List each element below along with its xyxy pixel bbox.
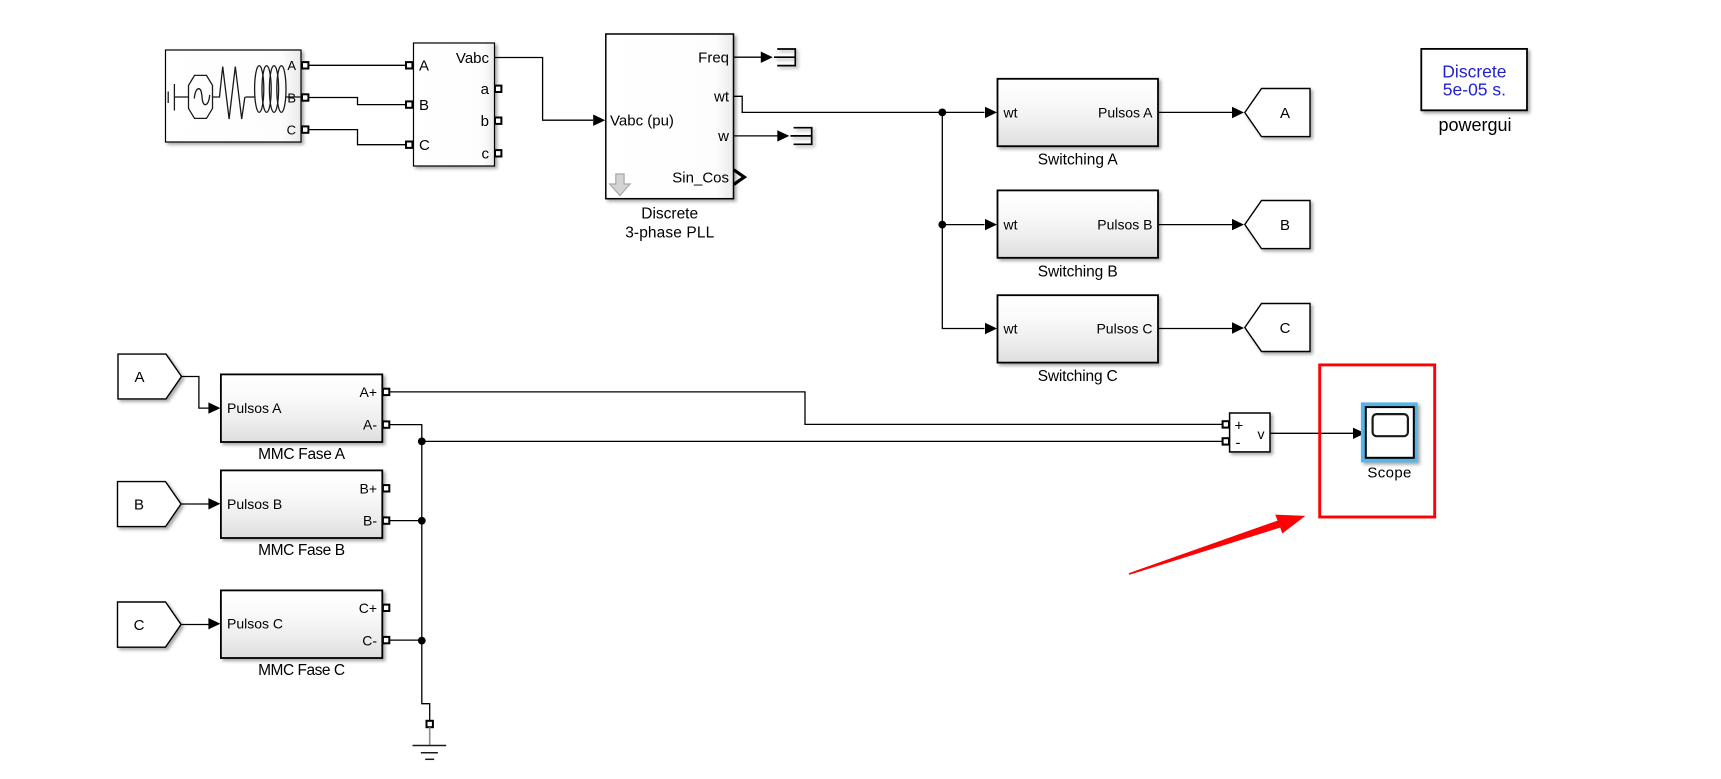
svg-text:wt: wt [713, 89, 730, 106]
Goto tag A [1245, 89, 1310, 137]
MMC C- port square [383, 637, 389, 643]
svg-text:A: A [1280, 105, 1290, 122]
arrowhead into PLL [593, 115, 605, 126]
PLL gray down-arrow icon [610, 174, 630, 196]
wire wt from PLL to switching blocks [734, 96, 985, 328]
svg-text:MMC Fase B: MMC Fase B [258, 542, 345, 559]
svg-text:C: C [134, 617, 145, 634]
junction dot A- bus [418, 438, 426, 446]
wire negative bus vertical [422, 441, 430, 720]
svg-text:Pulsos C: Pulsos C [1096, 321, 1152, 337]
MMC C+ port square [383, 605, 389, 611]
wire MMC B- to bus [389, 520, 422, 522]
terminator block w [790, 128, 811, 145]
MMC Fase C block [221, 590, 382, 658]
red annotation rectangle [1320, 365, 1435, 517]
svg-text:Scope: Scope [1367, 465, 1411, 482]
svg-text:-: - [1236, 435, 1241, 452]
three-phase measurement block Vabc [414, 43, 495, 166]
junction dot wt branch A [938, 109, 946, 117]
measurement block port square A [406, 62, 412, 68]
svg-text:A: A [419, 58, 429, 75]
svg-text:wt: wt [1003, 217, 1018, 233]
svg-text:B: B [1280, 217, 1290, 234]
From tag B [118, 482, 182, 527]
source inductor [246, 66, 302, 113]
svg-text:+: + [1235, 418, 1244, 435]
svg-text:Vabc: Vabc [456, 50, 490, 67]
arrowhead into Switching A [985, 107, 997, 118]
wire From A to MMC Fase A [182, 377, 210, 409]
voltage measurement block [1230, 413, 1270, 452]
wire Switching C to Goto C [1158, 328, 1232, 330]
source resistor [213, 67, 245, 119]
arrowhead Goto C [1232, 322, 1244, 333]
wire source B to measurement B [309, 98, 407, 105]
wire negative bus to voltage measurement minus [422, 440, 1223, 442]
wire source A to measurement A [309, 64, 407, 66]
arrowhead Goto A [1232, 107, 1244, 118]
svg-text:A: A [287, 58, 296, 73]
Discrete 3-phase PLL block [606, 34, 734, 199]
MMC B- port square [383, 517, 389, 523]
svg-text:Sin_Cos: Sin_Cos [672, 169, 729, 186]
arrowhead Freq [761, 52, 773, 63]
arrowhead w [777, 130, 789, 141]
svg-text:B: B [419, 97, 429, 114]
svg-text:wt: wt [1003, 104, 1018, 120]
junction dot C- bus [418, 637, 426, 645]
wire source C to measurement C [309, 130, 407, 145]
wire MMC A+ to voltage measurement plus [389, 392, 1222, 425]
From tag A [118, 354, 182, 399]
wire Vabc to PLL input [495, 58, 594, 121]
svg-text:powergui: powergui [1438, 115, 1511, 135]
MMC A+ port square [383, 389, 389, 395]
wire Switching A to Goto A [1158, 111, 1232, 113]
svg-text:C+: C+ [359, 600, 377, 616]
svg-text:Vabc (pu): Vabc (pu) [610, 113, 674, 130]
svg-text:Switching B: Switching B [1038, 263, 1118, 280]
wire w to terminator [734, 135, 778, 137]
red annotation arrow [1129, 515, 1306, 575]
arrowhead into Switching C [985, 323, 997, 334]
Switching C block [998, 295, 1159, 362]
svg-text:MMC Fase A: MMC Fase A [258, 446, 346, 463]
MMC Fase B block [221, 470, 382, 538]
measurement output square a [495, 86, 501, 92]
junction dot B- bus [418, 517, 426, 525]
wire MMC C- to bus [389, 639, 422, 641]
svg-text:Pulsos B: Pulsos B [1097, 217, 1152, 233]
svg-text:A-: A- [363, 417, 377, 433]
svg-text:w: w [717, 128, 729, 145]
svg-text:Freq: Freq [698, 49, 729, 66]
wire Freq to terminator [734, 56, 762, 58]
measurement output square c [495, 150, 501, 156]
svg-text:5e-05 s.: 5e-05 s. [1443, 80, 1506, 100]
Sin_Cos unconnected output chevron [734, 170, 745, 185]
ground port square [427, 721, 433, 727]
svg-text:b: b [481, 113, 489, 130]
svg-text:a: a [481, 81, 490, 98]
svg-text:Discrete: Discrete [641, 205, 698, 222]
svg-text:C: C [419, 137, 430, 154]
measurement block port square C [406, 142, 412, 148]
svg-text:MMC Fase C: MMC Fase C [258, 662, 345, 679]
svg-text:Switching A: Switching A [1038, 151, 1119, 168]
svg-text:A+: A+ [359, 384, 377, 400]
svg-text:Pulsos C: Pulsos C [227, 616, 283, 632]
Switching B block [998, 190, 1159, 257]
arrowhead into Switching B [985, 219, 997, 230]
svg-text:Pulsos A: Pulsos A [1098, 104, 1153, 120]
measurement block port square B [406, 101, 412, 107]
arrowhead into Scope [1353, 428, 1365, 439]
svg-text:c: c [482, 146, 490, 163]
svg-text:A: A [134, 369, 144, 386]
arrowhead into MMC Fase B [208, 498, 220, 509]
svg-text:B+: B+ [359, 480, 377, 496]
svg-text:Pulsos A: Pulsos A [227, 400, 282, 416]
svg-text:C: C [1280, 320, 1291, 337]
MMC B+ port square [383, 485, 389, 491]
MMC Fase A block [221, 374, 382, 442]
svg-text:Pulsos B: Pulsos B [227, 496, 282, 512]
wire From B to MMC Fase B [181, 503, 209, 505]
arrowhead Goto B [1232, 219, 1244, 230]
Goto tag B [1245, 201, 1310, 249]
svg-text:C-: C- [362, 633, 377, 649]
terminator block Freq [774, 49, 795, 66]
junction dot wt branch B [938, 221, 946, 229]
wire MMC A- to negative bus [389, 425, 422, 442]
svg-text:3-phase PLL: 3-phase PLL [625, 224, 714, 241]
source battery bars [168, 84, 188, 111]
svg-text:wt: wt [1003, 321, 1018, 337]
arrowhead into MMC Fase C [208, 618, 220, 629]
source port square B [302, 94, 308, 100]
source port square A [302, 62, 308, 68]
svg-text:v: v [1258, 426, 1265, 442]
svg-text:B-: B- [363, 513, 377, 529]
svg-text:C: C [287, 123, 296, 138]
voltage measurement minus port square [1223, 438, 1229, 444]
ground symbol [413, 727, 447, 759]
svg-text:Discrete: Discrete [1442, 61, 1506, 81]
wire From C to MMC Fase C [181, 624, 209, 626]
Scope selection highlight [1361, 402, 1418, 462]
svg-text:Switching C: Switching C [1038, 368, 1118, 385]
svg-text:B: B [134, 497, 144, 514]
three-phase source block [166, 50, 302, 142]
Scope block [1366, 407, 1414, 458]
wire Switching B to Goto B [1158, 224, 1232, 226]
Scope screen [1373, 414, 1408, 436]
powergui block [1421, 49, 1527, 110]
wire voltage measurement to Scope [1270, 432, 1353, 434]
source AC sine symbol [189, 75, 213, 118]
MMC A- port square [383, 421, 389, 427]
source port square C [302, 126, 308, 132]
Goto tag C [1245, 304, 1310, 352]
Switching A block [998, 79, 1159, 146]
From tag C [118, 602, 182, 647]
voltage measurement plus port square [1223, 421, 1229, 427]
arrowhead into MMC Fase A [208, 402, 220, 413]
measurement output square b [495, 118, 501, 124]
svg-text:B: B [287, 90, 296, 105]
